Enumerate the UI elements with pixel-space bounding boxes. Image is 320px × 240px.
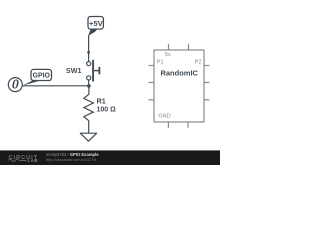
resistor R1 [84, 94, 93, 120]
node junction wire / SW1 pin 1 [87, 51, 90, 54]
IC U1 RandomIC body [154, 50, 204, 122]
IC U1 right pin P2 [204, 65, 209, 67]
svg-text:R1: R1 [97, 97, 106, 106]
IC U1 left pin P1 [149, 65, 154, 67]
svg-text:100 Ω: 100 Ω [97, 106, 117, 113]
svg-text:5v: 5v [165, 52, 171, 58]
svg-text:+5V: +5V [89, 19, 104, 28]
wire +5V to SW1 [88, 35, 90, 61]
svg-text:GPIO: GPIO [33, 73, 51, 80]
IC U1 right pin 2 [204, 82, 209, 84]
IC U1 bottom pin 2 [187, 122, 189, 128]
IC U1 bottom pin GND [167, 122, 169, 128]
power flag +5V [88, 17, 104, 37]
wire R1 to ground [88, 121, 90, 134]
footer bar [0, 150, 220, 165]
CircuitLab logo [9, 155, 39, 163]
wire node A to R1 [88, 86, 90, 95]
wire node A to logic input [22, 85, 89, 87]
IC U1 top pin 2 [188, 44, 190, 50]
IC U1 left pin 3 [149, 99, 154, 101]
logic input 0 [8, 78, 22, 93]
node A junction dot [87, 84, 91, 88]
net flag GPIO [23, 69, 52, 85]
svg-text:0: 0 [12, 78, 19, 93]
svg-text:P1: P1 [157, 59, 164, 65]
ground [80, 133, 96, 141]
svg-text:LAB: LAB [28, 158, 39, 163]
svg-text:http://circuitlab.com/c/24778: http://circuitlab.com/c/24778 [46, 157, 97, 162]
svg-text:SW1: SW1 [66, 66, 82, 75]
svg-text:RandomIC: RandomIC [160, 69, 198, 78]
switch SW1 pushbutton [87, 60, 100, 82]
wire SW1 pin 2 to node A [88, 80, 90, 86]
IC U1 top pin 5v [168, 44, 170, 50]
svg-text:GND: GND [158, 114, 170, 120]
svg-text:P2: P2 [195, 59, 202, 65]
IC U1 right pin 3 [204, 99, 209, 101]
IC U1 left pin 2 [149, 82, 154, 84]
